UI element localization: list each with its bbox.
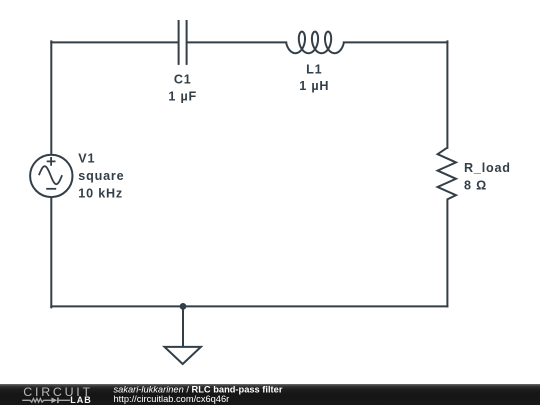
svg-text:V1: V1 bbox=[78, 152, 95, 166]
CircuitLab logo: diode bbox=[51, 398, 57, 404]
svg-text:square: square bbox=[78, 169, 124, 183]
svg-text:8 Ω: 8 Ω bbox=[464, 178, 487, 192]
svg-text:http://circuitlab.com/cx6q46r: http://circuitlab.com/cx6q46r bbox=[114, 394, 230, 404]
wire ground stub bbox=[182, 306, 184, 347]
CircuitLab logo: resistor zigzag bbox=[22, 399, 51, 403]
svg-text:1 µF: 1 µF bbox=[168, 89, 197, 103]
wire right upper bbox=[446, 41, 448, 147]
svg-text:10 kHz: 10 kHz bbox=[78, 187, 123, 201]
ground symbol bbox=[165, 347, 201, 364]
wire left upper bbox=[50, 41, 52, 155]
voltage source V1 bbox=[30, 152, 124, 201]
svg-text:LAB: LAB bbox=[70, 395, 92, 405]
V1 minus sign bbox=[46, 188, 56, 190]
junction node bbox=[180, 303, 187, 310]
V1 plus sign bbox=[47, 157, 56, 166]
wire top-right bbox=[344, 41, 448, 43]
svg-text:L1: L1 bbox=[306, 62, 322, 76]
svg-text:R_load: R_load bbox=[464, 161, 511, 175]
wire right lower bbox=[446, 200, 448, 307]
wire top-middle (C1 to L1) bbox=[188, 41, 287, 43]
wire top-left bbox=[51, 41, 177, 43]
wire bottom bbox=[51, 305, 447, 307]
inductor L1 bbox=[286, 32, 344, 93]
svg-text:C1: C1 bbox=[174, 72, 192, 86]
wire left lower bbox=[50, 197, 52, 308]
svg-text:1 µH: 1 µH bbox=[299, 79, 329, 93]
resistor R_load bbox=[438, 148, 511, 200]
capacitor C1 bbox=[168, 20, 197, 103]
V1 sine wave bbox=[39, 166, 62, 184]
